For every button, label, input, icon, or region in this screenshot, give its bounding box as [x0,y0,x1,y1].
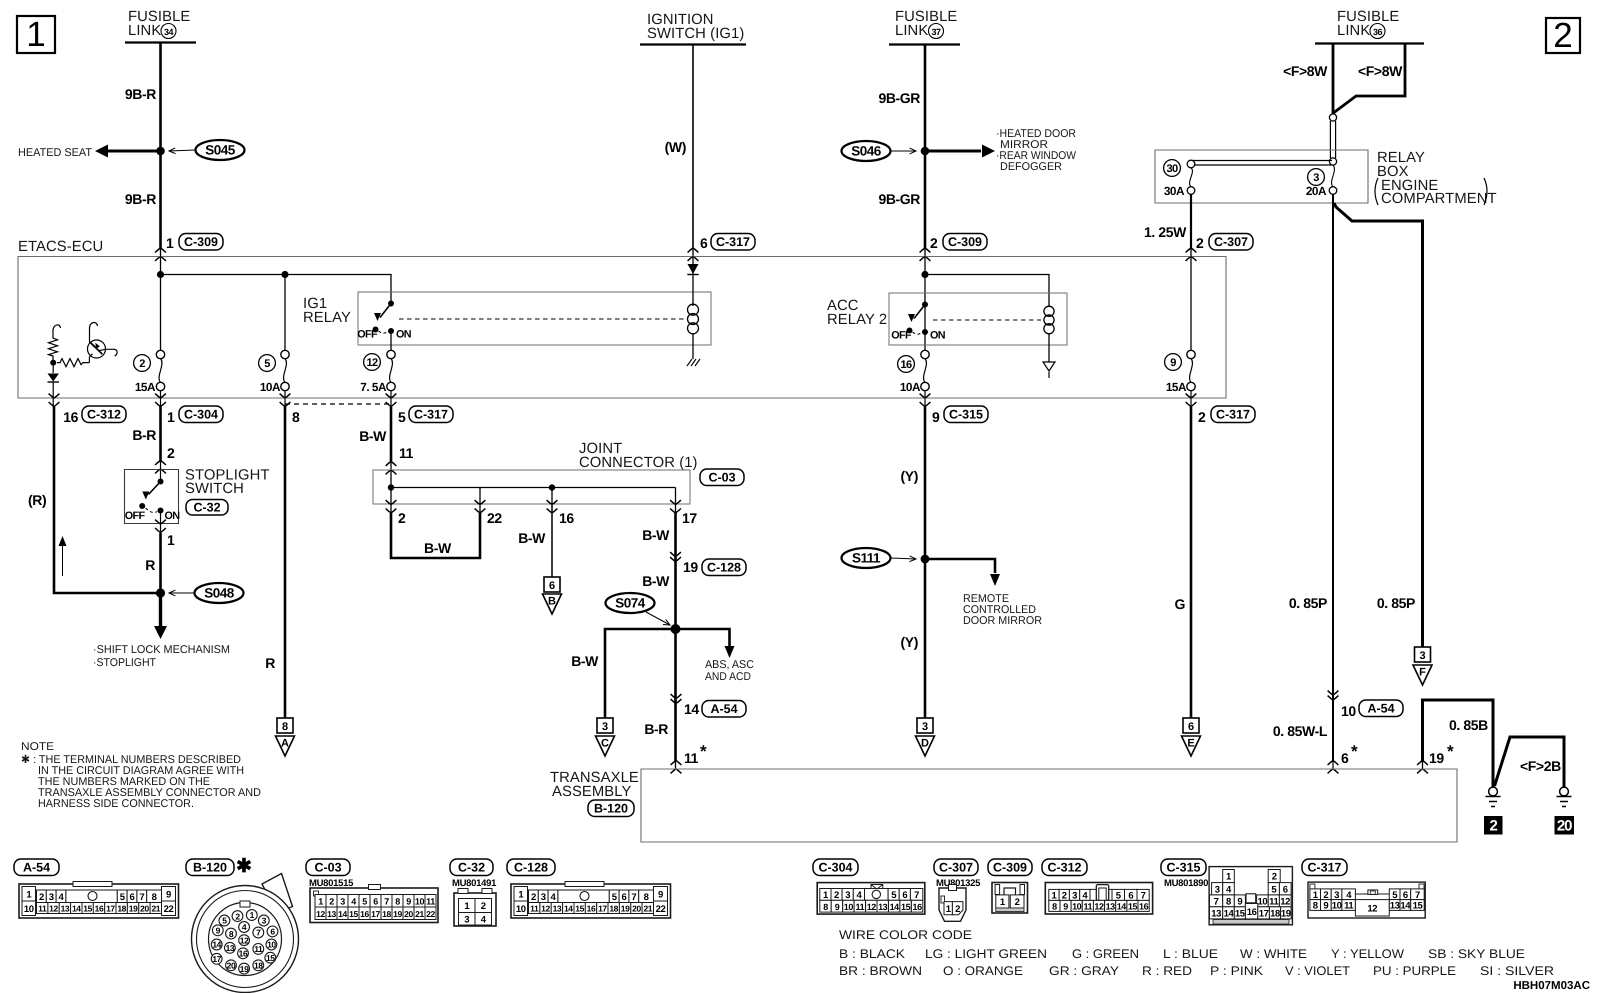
svg-text:1: 1 [250,910,255,920]
svg-text:C-317: C-317 [414,408,448,422]
svg-text:2: 2 [1272,872,1277,883]
chevron joint pin 17 [670,500,681,513]
wire color code title [839,928,972,942]
pin 19 label transaxle [1429,742,1454,766]
svg-text:V : VIOLET: V : VIOLET [1285,964,1350,978]
connector A-54 ref right [1359,700,1403,717]
svg-text:C-128: C-128 [707,561,741,575]
svg-text:34: 34 [164,27,174,37]
svg-text:20: 20 [140,904,149,914]
svg-text:10A: 10A [260,380,281,394]
svg-text:R : RED: R : RED [1142,964,1192,978]
svg-text:19: 19 [683,559,698,575]
svg-text:13: 13 [327,909,336,919]
pin 11 label [399,445,414,461]
svg-text:(W): (W) [665,139,686,155]
ACC relay switch [891,302,946,342]
svg-text:11: 11 [254,944,263,954]
wire internal node row left [160,248,162,354]
svg-text:NOTE: NOTE [21,741,54,753]
pin 19 label [683,559,698,575]
svg-text:✱: ✱ [236,856,252,877]
svg-text:2: 2 [955,904,960,915]
value label <F>8W right [1358,63,1403,79]
connector C-03 pinout [310,885,438,923]
node dot pin1 row [157,271,164,278]
svg-text:C-309: C-309 [948,235,982,249]
fuse 2 15A [134,350,165,394]
connector C-307 pinout [939,885,966,922]
value label (Y) lower [901,634,918,650]
wire branch to fuse 5 [284,275,286,355]
svg-text:2: 2 [481,901,486,912]
internal base resistor [57,359,89,367]
svg-text:LINK: LINK [895,23,928,39]
fuse 16 10A [898,350,930,394]
svg-text:7: 7 [914,890,919,901]
svg-text:13: 13 [1211,908,1221,919]
svg-text:9: 9 [166,889,171,900]
chevron exit 16 C-312 [49,394,60,407]
pin 22 label joint [487,510,502,526]
svg-text:P : PINK: P : PINK [1210,964,1264,978]
svg-text:12: 12 [366,357,378,369]
svg-text:OFF: OFF [891,330,912,342]
value label (Y) upper [901,468,918,484]
connector C-309 pinout [992,883,1028,914]
value label G [1175,596,1186,612]
connector C-307 ref label [934,859,981,889]
svg-text:17: 17 [1259,908,1269,919]
svg-text:0. 85P: 0. 85P [1289,595,1327,611]
svg-text:DOOR MIRROR: DOOR MIRROR [963,615,1042,627]
svg-text:WIRE COLOR CODE: WIRE COLOR CODE [839,928,972,942]
drawing number [1513,980,1590,992]
svg-text:9: 9 [658,889,663,900]
svg-text:13: 13 [226,943,235,953]
svg-text:1. 25W: 1. 25W [1144,224,1187,240]
svg-text:S074: S074 [615,596,646,611]
svg-text:9: 9 [216,926,221,936]
svg-text:6: 6 [902,890,907,901]
svg-text:<F>8W: <F>8W [1358,63,1403,79]
svg-text:COMPARTMENT: COMPARTMENT [1381,191,1497,207]
pin 2 label [930,235,938,251]
svg-text:2: 2 [1490,818,1498,835]
svg-text:B-R: B-R [132,427,156,443]
fusible link 37 [889,9,960,45]
fuse 12 7.5A [360,350,395,394]
svg-text:ABS, ASC: ABS, ASC [705,659,754,671]
svg-text:SWITCH (IG1): SWITCH (IG1) [647,26,744,42]
svg-text:11: 11 [426,896,435,906]
svg-text:DEFOGGER: DEFOGGER [1000,161,1062,173]
svg-text:B-R: B-R [644,721,668,737]
connector C-309 ref label [988,859,1032,876]
svg-text:9B-GR: 9B-GR [878,191,920,207]
chevron exit 8 [280,394,291,407]
svg-text:7: 7 [1214,896,1219,907]
svg-text:SB : SKY BLUE: SB : SKY BLUE [1428,947,1525,961]
wire pin17 main B-W [675,505,677,630]
connector C-128 ref label [507,859,555,876]
svg-text:MU801890: MU801890 [1164,878,1208,889]
joint bus drops [391,488,676,505]
svg-text:20A: 20A [1306,184,1327,198]
svg-text:15: 15 [266,953,275,963]
svg-text:10: 10 [24,904,34,915]
svg-text:18: 18 [254,961,263,971]
value label 1.25W [1144,224,1187,240]
svg-text:9: 9 [835,902,840,912]
svg-text:3: 3 [1215,884,1220,895]
svg-text:2: 2 [1062,891,1067,902]
wire R column 8 [284,407,287,719]
svg-text:22: 22 [487,510,502,526]
svg-text:O : ORANGE: O : ORANGE [943,964,1023,978]
connector B-120 pinout [192,874,299,993]
chevron into transaxle 19 [1417,761,1428,774]
value label B-W bridge [424,540,452,556]
IG1 relay switch [357,301,412,341]
wire internal bus to IG1 relay [161,275,392,302]
wire G [1190,407,1193,719]
svg-text:A: A [281,738,289,750]
svg-text:10: 10 [1072,902,1082,912]
svg-text:ETACS-ECU: ETACS-ECU [18,239,103,255]
svg-text:A-54: A-54 [23,861,50,875]
svg-text:15A: 15A [1166,380,1187,394]
connector A-54 pinout [19,882,179,919]
connector C-309 ref right [943,234,987,251]
connector C-309 ref [179,234,223,251]
svg-text:S048: S048 [204,586,235,601]
svg-text:6: 6 [130,892,135,903]
svg-text:3: 3 [922,721,928,733]
svg-text:16: 16 [239,949,248,959]
svg-text:C-32: C-32 [458,861,485,875]
svg-text:<F>8W: <F>8W [1283,63,1328,79]
svg-text:11: 11 [1269,896,1279,907]
svg-text:11: 11 [530,904,539,914]
svg-text:A-54: A-54 [1367,702,1394,716]
svg-text:·STOPLIGHT: ·STOPLIGHT [93,657,156,669]
wire (Y) lower [924,559,927,718]
svg-text:11: 11 [856,902,865,912]
svg-text:17: 17 [371,909,380,919]
svg-text:8: 8 [292,409,300,425]
svg-text:LINK: LINK [1337,23,1370,39]
svg-text:2: 2 [531,892,536,903]
svg-text:16: 16 [63,409,78,425]
svg-text:Y : YELLOW: Y : YELLOW [1331,947,1404,961]
svg-text:7: 7 [631,892,636,903]
wire fusible link 37 to ETACS pin 2 C-309 [924,45,927,250]
value label B-R transaxle [644,721,668,737]
svg-text:2: 2 [398,510,406,526]
chevron crossing into ETACS at C-309 right [920,248,931,261]
pin 1 label C-304 [167,409,175,425]
svg-text:10: 10 [516,904,526,915]
svg-text:C-317: C-317 [716,235,750,249]
svg-text:C-317: C-317 [1307,861,1341,875]
svg-text:3: 3 [845,890,850,901]
svg-text:19: 19 [1429,750,1444,766]
svg-text:D: D [921,738,929,750]
svg-text:20: 20 [227,961,236,971]
dashed option wire [285,403,391,405]
value label 0.85P left [1289,595,1327,611]
svg-text:*: * [1447,742,1454,761]
harness dest 8-A [276,718,295,756]
svg-text:2: 2 [139,358,145,370]
svg-text:8: 8 [1313,901,1318,912]
svg-text:17: 17 [682,510,697,526]
stoplight switch contacts [125,479,181,523]
svg-text:2: 2 [1553,16,1572,55]
chevron joint pin 2 [386,500,397,513]
relay box bus [1191,161,1332,166]
wire IG1 relay ON to fuse 12 [390,332,392,354]
svg-text:3: 3 [1313,172,1319,184]
IG1 relay label [303,296,351,326]
svg-text:3: 3 [340,896,345,906]
svg-text:15: 15 [575,904,584,914]
value label <F>8W left [1283,63,1328,79]
svg-text:LG : LIGHT GREEN: LG : LIGHT GREEN [925,947,1047,961]
svg-text:2: 2 [1196,235,1204,251]
wire <F>2B ground link [1495,737,1565,787]
shift lock feed arrow [93,593,230,669]
fusible link 34 [125,9,196,43]
svg-text:11: 11 [684,750,699,766]
wire fuse5 to box edge [284,391,286,407]
svg-text:22: 22 [164,904,174,915]
svg-text:3: 3 [464,915,469,926]
svg-text:C-32: C-32 [193,501,220,515]
svg-text:19: 19 [240,964,249,974]
svg-text:12: 12 [1094,902,1104,912]
splice S074 [606,593,671,625]
node S046 junction [921,147,930,156]
svg-text:12: 12 [1367,903,1377,914]
value label 0.85W-L [1273,723,1328,739]
svg-text:8: 8 [395,896,400,906]
svg-text:16: 16 [95,904,104,914]
wire pin16 stub [551,504,553,577]
svg-text:HBH07M03AC: HBH07M03AC [1513,980,1590,992]
value label R col8 [265,655,275,671]
svg-text:B : BLACK: B : BLACK [839,947,906,961]
connector C-03 ref label [306,859,354,889]
connector C-128 pinout [511,882,671,919]
svg-text:0. 85W-L: 0. 85W-L [1273,723,1328,739]
wire ABS branch [676,629,755,683]
value label B-W pin17 [642,527,670,543]
fusible link element [1329,114,1336,165]
svg-text:3: 3 [1072,891,1077,902]
svg-text:E: E [1187,738,1194,750]
svg-text:17: 17 [106,904,115,914]
svg-text:6: 6 [270,927,275,937]
svg-text:16: 16 [1139,902,1149,912]
svg-text:SWITCH: SWITCH [185,481,244,497]
value label B-W below C-128 [642,573,670,589]
chevron crossing into ETACS at C-317 [688,248,699,261]
svg-text:MU801491: MU801491 [452,878,497,889]
svg-text:5: 5 [264,358,270,370]
svg-text:9B-R: 9B-R [125,191,156,207]
connector C-32 ref label [450,859,497,889]
svg-text:17: 17 [212,954,221,964]
svg-text:16: 16 [559,510,574,526]
svg-text:15: 15 [1413,901,1424,912]
svg-text:10: 10 [1332,901,1342,912]
svg-text:9: 9 [1170,357,1176,369]
svg-text:12: 12 [49,904,58,914]
svg-text:C-315: C-315 [1166,861,1200,875]
svg-text:PU : PURPLE: PU : PURPLE [1373,964,1456,978]
connector C-03 ref [700,469,744,486]
wire S074 branch left [605,629,676,718]
svg-text:30: 30 [1166,163,1178,175]
svg-text:13: 13 [553,904,562,914]
svg-text:17: 17 [598,904,607,914]
svg-text:C-309: C-309 [184,235,218,249]
svg-text:16: 16 [900,359,912,371]
connector C-307 ref [1209,234,1253,251]
pin 6 label transaxle [1341,742,1358,766]
value label B-W col5 [359,428,387,444]
svg-text:B-120: B-120 [193,861,227,875]
value label 9B-GR lower [878,191,920,207]
relay box (engine compartment) [1155,150,1497,207]
svg-text:8: 8 [282,721,288,733]
ACC relay dashed link [933,319,1041,321]
svg-text:6: 6 [700,235,708,251]
svg-text:9B-R: 9B-R [125,86,156,102]
wire fuse 3 straight down [1332,194,1334,769]
connector C-317 ref mid [409,406,453,423]
svg-text:S111: S111 [852,551,881,566]
wire R to S048 [160,511,162,594]
svg-text:B: B [548,596,556,608]
svg-text:14: 14 [1400,901,1411,912]
svg-text:C-03: C-03 [314,861,341,875]
connector C-315 pinout [1209,867,1292,925]
stoplight switch label [185,468,270,516]
heated door mirror feed arrow [925,128,1076,173]
joint connector (1) label [579,441,698,471]
svg-text:16: 16 [1247,907,1257,918]
svg-text:9: 9 [1323,901,1328,912]
ACC relay coil [1044,306,1054,334]
IG1 relay coil [688,304,699,334]
svg-text:B-W: B-W [359,428,387,444]
ACC relay 2 label [827,298,887,328]
pin 14 label [684,701,699,717]
chevron crossing into ETACS at C-307 [1186,248,1197,261]
svg-text:0. 85P: 0. 85P [1377,595,1415,611]
svg-text:B-W: B-W [642,527,670,543]
svg-text:ASSEMBLY: ASSEMBLY [552,784,632,800]
svg-text:W : WHITE: W : WHITE [1240,947,1307,961]
wire (R) left leg [54,407,161,594]
wire (Y) upper [924,407,927,560]
svg-text:19: 19 [129,904,138,914]
svg-text:10: 10 [1341,703,1356,719]
svg-text:C: C [601,738,609,750]
svg-text:RELAY 2: RELAY 2 [827,312,887,328]
svg-text:HARNESS SIDE CONNECTOR.: HARNESS SIDE CONNECTOR. [38,798,194,810]
pin 5 label [398,409,406,425]
svg-text:6: 6 [1128,891,1133,902]
svg-text:6: 6 [1283,884,1288,895]
chevron into transaxle 11 [671,761,682,774]
svg-text:8: 8 [823,902,828,912]
ACC relay 2 box [889,293,1067,345]
wire fuse12 to box edge [390,391,392,407]
svg-text:2: 2 [834,890,839,901]
svg-text:19: 19 [621,904,630,914]
chevron exit 5 C-317 [386,394,397,407]
pin 1 label below switch [167,532,175,548]
svg-text:S046: S046 [851,144,882,159]
svg-text:9: 9 [932,409,940,425]
direction arrow up [59,536,67,576]
svg-text:14: 14 [684,701,699,717]
svg-text:OFF: OFF [125,510,146,522]
wire IG1 coil feed from ignition switch [692,248,694,306]
value label 0.85P right [1377,595,1415,611]
svg-text:14: 14 [1117,902,1127,912]
fusible link 36 [1315,9,1424,44]
svg-text:6: 6 [622,892,627,903]
svg-text:8: 8 [152,892,157,903]
svg-text:5: 5 [362,896,367,906]
svg-text:21: 21 [643,904,652,914]
svg-text:22: 22 [656,904,666,915]
heated seat feed arrow [18,145,160,160]
pin 6 label [700,235,708,251]
svg-text:C-128: C-128 [514,861,548,875]
chevron into stoplight switch [155,461,166,474]
value label <F>2B [1520,758,1561,774]
wire B-W bridge 2-22 [391,505,480,559]
value label 0.85B [1449,717,1488,733]
connector C-312 pinout [1045,883,1152,915]
svg-text:SI : SILVER: SI : SILVER [1480,964,1554,978]
connector C-312 ref label [1042,859,1087,876]
pin 2 label G col [1198,409,1206,425]
svg-text:2: 2 [1015,897,1020,908]
connector C-304 pinout [817,883,925,915]
diode in ETACS [687,264,698,275]
svg-text:ON: ON [930,330,946,342]
wire IG1 coil to ground [692,333,694,359]
svg-text:C-307: C-307 [939,861,973,875]
ignition switch (IG1) [640,12,746,45]
svg-text:15: 15 [349,909,358,919]
node dot ACC feed [921,271,928,278]
wire 0.85B ground path [1423,700,1494,787]
harness dest 6-E [1182,718,1201,756]
svg-text:B-W: B-W [571,653,599,669]
svg-text:(Y): (Y) [901,634,918,650]
svg-text:7. 5A: 7. 5A [360,380,387,394]
svg-text:7: 7 [256,928,261,938]
svg-text:1: 1 [26,15,45,54]
